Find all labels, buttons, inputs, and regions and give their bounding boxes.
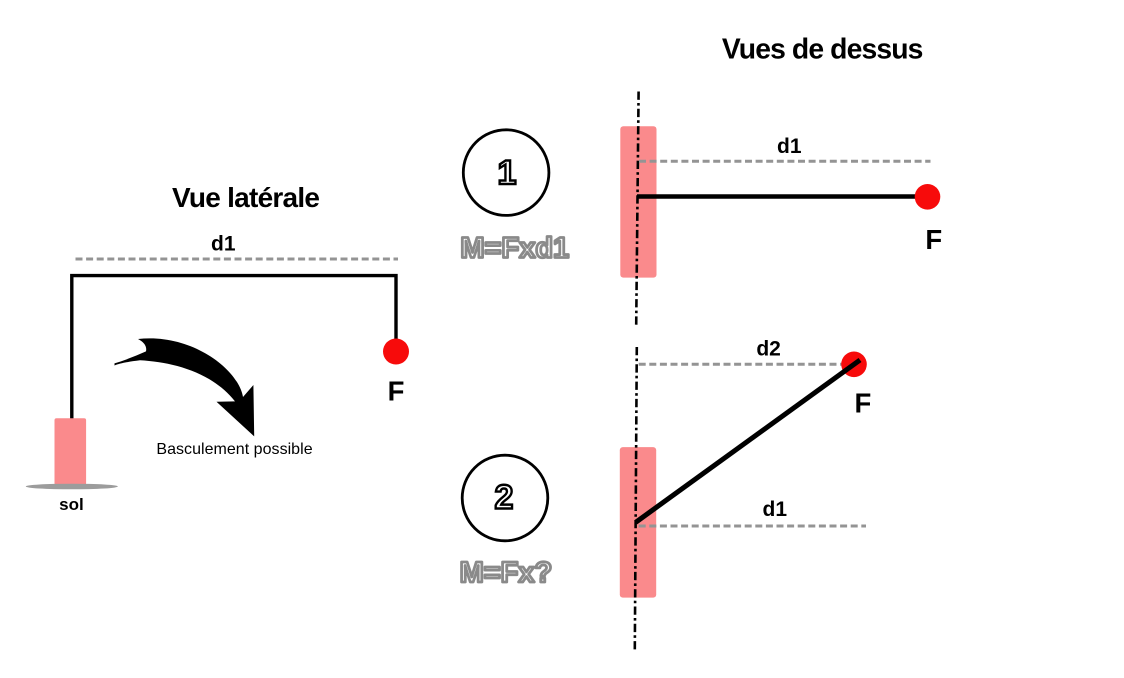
wall (pink) top view 2 [620,447,656,597]
svg-text:F: F [854,388,871,419]
dashed distance line d1 (view 2) [639,525,866,528]
badge circle 2 [462,455,548,541]
force point F (view 1) [915,184,941,210]
svg-text:d1: d1 [777,135,802,158]
svg-text:M=Fxd1: M=Fxd1 [460,233,569,265]
post (pink) side view [55,418,87,485]
lever arm (view 1) [637,194,918,199]
axis dash-dot (view 1) [636,92,638,326]
svg-text:d1: d1 [211,233,236,256]
svg-text:2: 2 [495,479,514,517]
svg-text:1: 1 [497,154,516,192]
lever arm diagonal (view 2) [636,360,860,522]
svg-text:d1: d1 [763,498,788,521]
force point F (side view) [383,339,409,365]
svg-text:F: F [925,224,942,255]
ground ellipse [26,484,118,490]
svg-text:Basculement possible: Basculement possible [156,441,312,458]
wire: L-bracket (side view pole and arm) [72,276,396,419]
wall (pink) top view 1 [620,126,656,277]
svg-text:Vues de dessus: Vues de dessus [722,32,924,64]
svg-text:M=Fx?: M=Fx? [460,557,553,589]
dashed distance line d1 (view 1) [639,160,931,163]
svg-text:sol: sol [59,495,84,514]
force point F (view 2) [841,352,867,378]
svg-text:d2: d2 [756,338,781,361]
dashed distance line d1 (side view) [76,258,399,261]
dashed distance line d2 (view 2) [639,363,844,366]
svg-text:Vue latérale: Vue latérale [172,182,320,213]
svg-text:F: F [388,376,405,407]
badge circle 1 [463,130,549,216]
axis dash-dot (view 2) [635,347,637,650]
curved arrow: basculement [115,338,255,436]
